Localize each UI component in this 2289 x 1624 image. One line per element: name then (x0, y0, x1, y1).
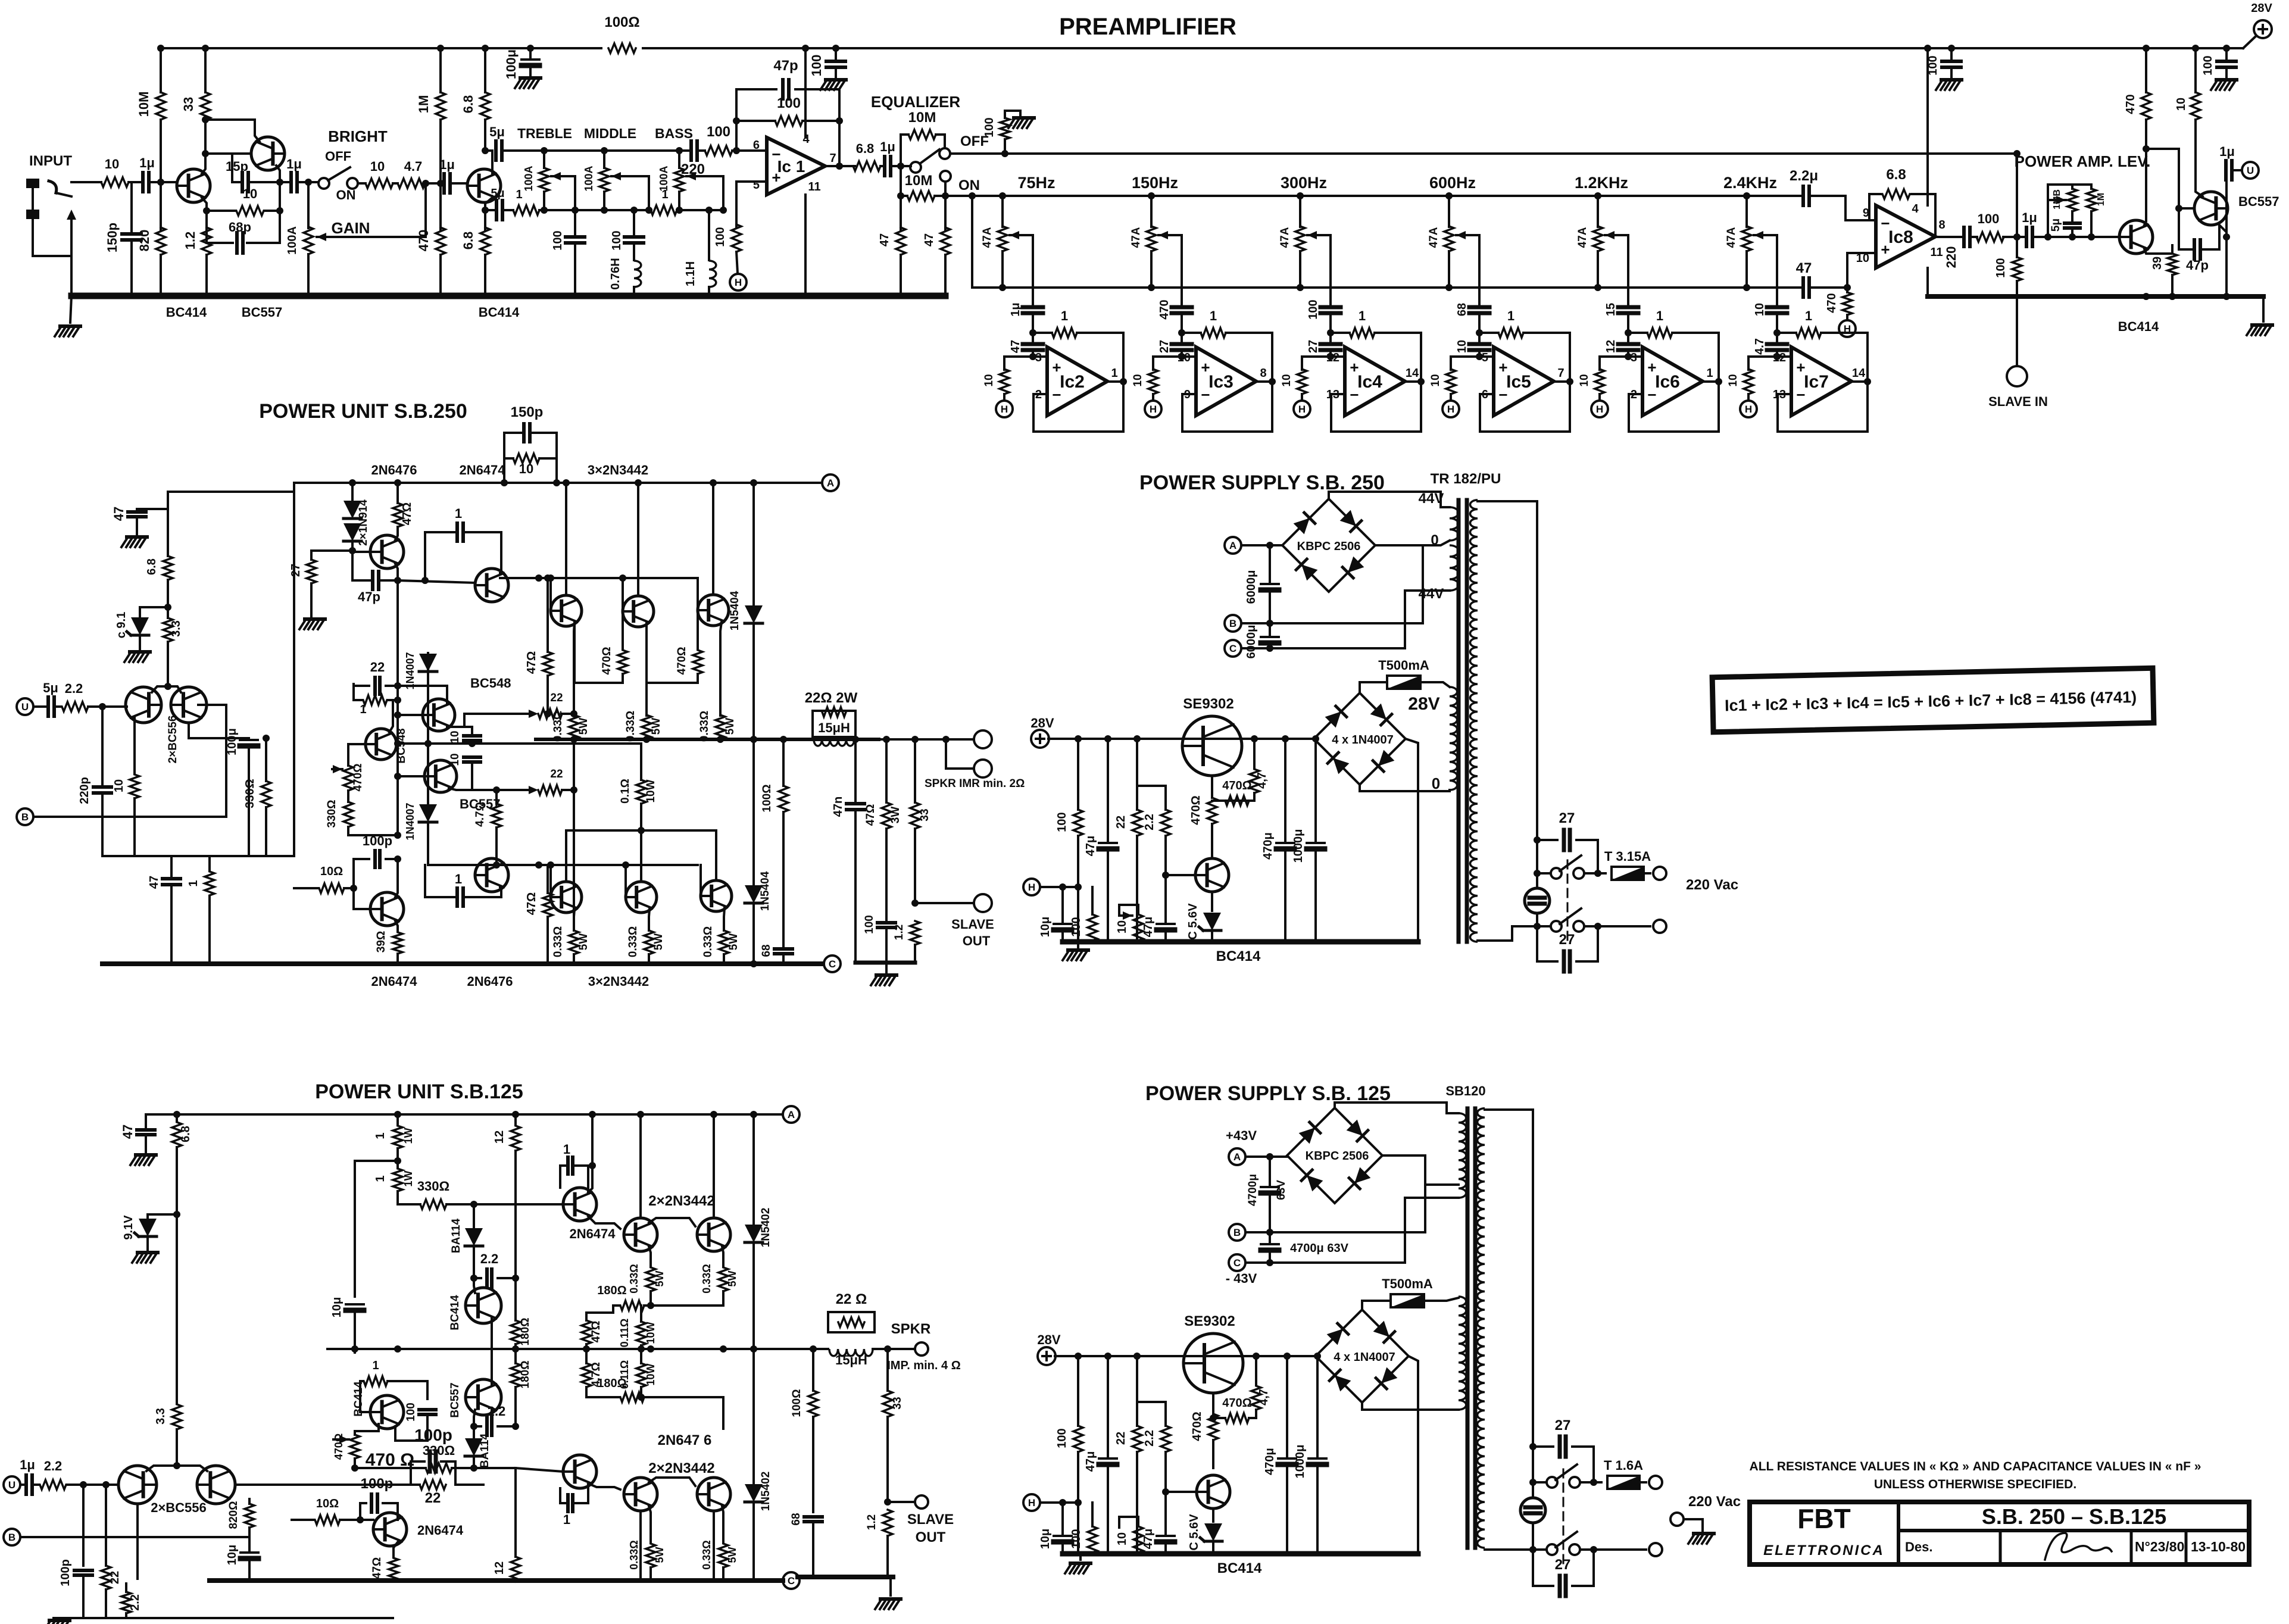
wire to base BC556a (88, 705, 127, 708)
bridge rectifier 4x1N4007 125 (1316, 1310, 1409, 1403)
wire mid to VAS (455, 1484, 483, 1486)
transistor output 3x2N3442 top a (551, 595, 582, 626)
wire spkr b (946, 739, 974, 769)
capacitor 1u to power amp lev (2026, 227, 2032, 246)
resistor 1 1W upper (396, 1114, 399, 1125)
resistor 100ohm right (782, 739, 785, 786)
wire BC557 emitter (491, 1349, 493, 1385)
svg-text:10: 10 (1456, 340, 1469, 353)
wire IC1 + input to 100-H (736, 182, 767, 227)
svg-text:47A: 47A (1428, 227, 1440, 248)
transformer secondary winding (1450, 545, 1459, 591)
switch mains bottom (1551, 921, 1562, 932)
zener C5.6V (1211, 892, 1213, 911)
svg-text:10μ: 10μ (1039, 917, 1052, 937)
resistor 1 lower middle-bass (651, 205, 677, 215)
wire cap to plus input Ic2 (1033, 350, 1047, 357)
svg-text:1μ: 1μ (2219, 144, 2235, 159)
terminal H supply 250 (1023, 879, 1040, 895)
svg-text:4: 4 (1912, 202, 1919, 216)
svg-text:22: 22 (550, 768, 563, 780)
wire Ic8 supply vertical (1926, 48, 1929, 205)
transistor BC556 a (126, 687, 161, 723)
resistor 0.33ohm 5W upper b (722, 1247, 723, 1267)
node 75Hz on feed rail (999, 192, 1006, 199)
pot 470ohm (348, 744, 366, 766)
svg-text:H: H (1844, 323, 1851, 335)
capacitor 100 zobel (877, 923, 895, 927)
resistor 47 to ground bus left (900, 196, 902, 230)
resistor 22 zig 125 (838, 1317, 864, 1327)
wire to BC414 base (151, 181, 177, 183)
svg-text:BC557: BC557 (449, 1382, 461, 1417)
svg-text:0.33Ω: 0.33Ω (552, 926, 564, 957)
pot wiper 125 (333, 1438, 349, 1441)
wire level network to base line (2071, 230, 2073, 237)
wire common emitters 125 (146, 1466, 207, 1471)
node 1.2KHz on feed rail (1594, 192, 1601, 199)
wire output Ic3 (1256, 380, 1272, 383)
svg-text:11: 11 (808, 180, 820, 193)
svg-text:47Ω: 47Ω (525, 651, 538, 674)
wire equalizer feed rail (972, 195, 1801, 197)
resistor 1 feedback Ic2 (1033, 332, 1052, 334)
svg-text:10: 10 (1281, 374, 1293, 386)
transistor predriver 2N6474 top (475, 569, 508, 602)
svg-text:TREBLE: TREBLE (517, 126, 572, 141)
line y1249 (398, 742, 641, 745)
wire output node down to bus (2225, 237, 2228, 296)
svg-text:2N6476: 2N6476 (467, 974, 513, 989)
resistor 100 series to IC1 (699, 149, 705, 152)
svg-text:10: 10 (1116, 1532, 1129, 1545)
title block divider horizontal (1898, 1529, 2249, 1532)
svg-text:2N6474: 2N6474 (417, 1523, 464, 1538)
capacitor 1u coupling to bright switch (280, 181, 289, 183)
capacitor 27 mains bottom (1537, 926, 1557, 961)
svg-text:ELETTRONICA: ELETTRONICA (1763, 1542, 1885, 1559)
bridge rectifier 4x1N4007 supply 250 (1314, 693, 1406, 785)
capacitor 10 b (464, 757, 480, 762)
bottom bus 125 (210, 1578, 783, 1583)
resistor 2.2 supply 125 (1137, 1402, 1166, 1426)
resistor 4.7 125 (1255, 1356, 1257, 1385)
wire output Ic5 (1554, 380, 1570, 383)
capacitor 220 to IC1 (691, 141, 697, 160)
diode 1N5404 top (752, 483, 755, 605)
resistor 10 after switch (358, 182, 366, 185)
terminal A power unit 250 (822, 474, 839, 491)
capacitor 47n zobel (854, 739, 857, 801)
transistor BC557 second stage pnp (251, 137, 285, 170)
diode 1N5402 lower (752, 1349, 755, 1484)
svg-text:47μ: 47μ (1084, 836, 1097, 856)
resistor 100 to H (732, 224, 741, 252)
wire to base 125 (67, 1484, 117, 1486)
transistor BC414 vbe 125 (370, 1395, 404, 1429)
resistor 10 to lower line (133, 717, 136, 773)
coil 0.76H (634, 261, 641, 287)
wire 47p to emitter line (381, 579, 398, 582)
resistor 4.7 SE9302 (1253, 739, 1256, 768)
svg-text:H: H (1596, 404, 1603, 415)
op-amp Ic2 (1047, 347, 1107, 416)
svg-text:220p: 220p (78, 777, 91, 804)
fuse T3.15A (1612, 867, 1644, 880)
capacitor 47 left with ground 125 (145, 1114, 147, 1127)
svg-text:47: 47 (923, 233, 936, 246)
svg-text:39: 39 (2151, 257, 2164, 270)
wire cap to plus input Ic5 (1479, 350, 1494, 357)
capacitor 68p parallel (207, 211, 233, 243)
ground (136, 1153, 156, 1157)
capacitor 100 under treble segment (574, 210, 576, 235)
ground bus preamp thick (71, 293, 945, 299)
wire feedback top Ic7 (1821, 333, 1868, 382)
terminal A supply 250 (1225, 537, 1241, 554)
diode BA114 upper (473, 1204, 475, 1228)
bottom bus supply 125 (1063, 1551, 1418, 1557)
wire output Ic6 (1703, 380, 1719, 383)
svg-text:150Hz: 150Hz (1132, 174, 1178, 192)
svg-text:1: 1 (1359, 308, 1366, 323)
svg-text:1: 1 (1805, 308, 1812, 323)
resistor 10 input series (71, 181, 101, 183)
capacitor 47u low 125 (1164, 1510, 1167, 1534)
svg-text:47Ω: 47Ω (525, 892, 538, 915)
svg-text:U: U (8, 1479, 15, 1491)
node summing rail (1148, 284, 1155, 291)
resistor 1 lower (208, 856, 211, 870)
resistor 33 right 125 (886, 1349, 889, 1391)
wire cap to plus input Ic4 (1331, 350, 1345, 357)
svg-text:33: 33 (919, 808, 931, 821)
wire base driver top (352, 551, 370, 552)
wire 6.8 down to zener node (148, 1147, 177, 1214)
coil 15uH (814, 739, 854, 746)
svg-text:5μ: 5μ (2050, 218, 2062, 232)
resistor 47 to ground bus right (944, 196, 947, 230)
svg-text:4,7: 4,7 (1256, 772, 1269, 789)
svg-text:UNLESS OTHERWISE SPECIFIED.: UNLESS OTHERWISE SPECIFIED. (1874, 1478, 2076, 1491)
svg-text:2.2μ: 2.2μ (1790, 168, 1818, 184)
capacitor 1000u supply 125 (1316, 1356, 1319, 1456)
svg-text:1.1H: 1.1H (684, 261, 697, 286)
resistor 6.8 bias (167, 509, 169, 556)
svg-text:820Ω: 820Ω (227, 1501, 240, 1529)
svg-text:1: 1 (563, 1142, 570, 1157)
capacitor 47p base-emitter (352, 551, 370, 580)
svg-text:22: 22 (1114, 1432, 1128, 1445)
wire collectors up (639, 1114, 642, 1218)
resistor 1.2 emitter (202, 227, 211, 255)
wire 15p node (250, 181, 280, 183)
capacitor 1 miller bottom (425, 865, 455, 897)
node 2.4KHz on feed rail (1743, 192, 1750, 199)
svg-text:15p: 15p (226, 159, 248, 174)
ground (305, 617, 325, 621)
capacitor 10u 125 (1061, 1503, 1064, 1534)
ground (127, 535, 147, 539)
capacitor 1u out (880, 165, 883, 167)
ground (2216, 78, 2237, 82)
svg-text:27: 27 (1307, 340, 1320, 353)
svg-text:100: 100 (1994, 258, 2007, 277)
wire bridge right to 0 tap (1375, 545, 1423, 623)
svg-text:B: B (8, 1532, 15, 1543)
capacitor 47u supply 125 (1107, 1356, 1109, 1456)
svg-text:470μ: 470μ (1263, 1448, 1276, 1475)
resistor 22 supply 125 (1136, 1356, 1138, 1426)
svg-text:28V: 28V (1408, 694, 1439, 714)
svg-text:C 5.6V: C 5.6V (1188, 1514, 1201, 1551)
pot wiper 470 (332, 768, 342, 770)
svg-text:100: 100 (1070, 917, 1083, 936)
svg-text:100Ω: 100Ω (791, 1389, 803, 1417)
svg-text:33: 33 (891, 1397, 904, 1409)
switch mains bottom 125 (1547, 1544, 1557, 1555)
wire output bases drops top (549, 578, 552, 611)
svg-text:22: 22 (425, 1490, 441, 1506)
capacitor 10u 125 (248, 1537, 251, 1550)
svg-text:1μ: 1μ (286, 157, 302, 171)
svg-text:10: 10 (519, 461, 533, 476)
resistor 6.8 left 125 (176, 1114, 178, 1122)
svg-text:100: 100 (1926, 55, 1940, 75)
svg-text:6: 6 (753, 139, 760, 152)
switch mains top (1536, 840, 1538, 873)
wire signal to mid (235, 1484, 411, 1486)
pot wiper arrow 600Hz (1456, 234, 1479, 236)
capacitor 2.2 upper (474, 1277, 481, 1279)
svg-text:GAIN: GAIN (332, 219, 370, 237)
svg-text:0.33Ω: 0.33Ω (701, 1540, 713, 1569)
svg-text:10: 10 (113, 779, 126, 792)
resistor 1.2 slave (910, 921, 920, 945)
wire output node up to 1u (2225, 170, 2228, 237)
svg-text:180Ω: 180Ω (597, 1284, 626, 1297)
wire BC414 emitter to 39 (2144, 249, 2172, 254)
resistor 33 right (914, 739, 916, 802)
svg-text:27: 27 (1559, 810, 1575, 826)
transistor 2N6476 driver mid lower (563, 1455, 597, 1488)
terminal U input power unit 250 (17, 698, 33, 715)
wire BC557 base (474, 1410, 475, 1426)
svg-text:- 43V: - 43V (1226, 1271, 1257, 1286)
resistor 47ohm emitter to bias line (547, 578, 549, 652)
bottom bus power unit 250 (102, 961, 822, 966)
pot 100A middle (601, 147, 608, 154)
resistor 10 emitter supply (2191, 92, 2200, 120)
svg-text:470Ω: 470Ω (1191, 1411, 1204, 1441)
svg-text:0.33Ω: 0.33Ω (624, 711, 637, 742)
terminal mains neutral 125 (1649, 1543, 1662, 1556)
resistor 1M bias (439, 48, 442, 92)
svg-text:330Ω: 330Ω (417, 1179, 449, 1194)
switch mains top 125 (1532, 1447, 1534, 1482)
resistor 470 to H Ic8 (1846, 288, 1848, 292)
wire vertical B (396, 580, 399, 835)
svg-text:C: C (1229, 643, 1236, 654)
transformer core (1457, 500, 1461, 942)
arrow 22 top (529, 710, 538, 718)
resistor 180ohm right a (514, 1278, 517, 1320)
terminal H Ic5 (1450, 394, 1452, 401)
switch link dashed (1567, 860, 1569, 941)
wire BC557 collector to output node (2219, 225, 2226, 237)
svg-text:0.33Ω: 0.33Ω (628, 1540, 640, 1569)
svg-text:1000μ: 1000μ (1294, 1445, 1307, 1479)
svg-text:100: 100 (777, 95, 801, 111)
svg-text:330Ω: 330Ω (423, 1443, 455, 1458)
zener 9.1V 125 (146, 1214, 149, 1218)
resistor 0.11ohm 10W upper (636, 1322, 646, 1345)
wire base driver bottom (354, 888, 370, 909)
svg-text:6.8: 6.8 (461, 95, 476, 114)
svg-text:47Ω: 47Ω (371, 1557, 383, 1579)
svg-text:SPKR: SPKR (891, 1321, 931, 1337)
capacitor 2.2u to Ic8 (1803, 186, 1809, 205)
wire lower line to bass pot (677, 209, 723, 211)
svg-text:4 x 1N4007: 4 x 1N4007 (1332, 733, 1393, 747)
resistor 10M lower (901, 166, 907, 196)
node summing rail (1445, 284, 1453, 291)
svg-text:100: 100 (551, 230, 564, 250)
wire BC557 emitter up to 10 (2196, 120, 2203, 196)
wire node up to level pot bracket (2048, 185, 2072, 237)
svg-text:100: 100 (1070, 1529, 1083, 1548)
svg-text:2×2N3442: 2×2N3442 (648, 1193, 714, 1209)
svg-text:10W: 10W (645, 1322, 657, 1344)
svg-text:A: A (788, 1109, 795, 1120)
node base BC414 (157, 179, 164, 186)
resistor 6.8 IC1 out (853, 161, 880, 171)
svg-text:150p: 150p (511, 404, 544, 420)
svg-text:POWER UNIT S.B.250: POWER UNIT S.B.250 (259, 400, 467, 423)
svg-text:T 3.15A: T 3.15A (1604, 849, 1651, 864)
svg-text:470: 470 (1825, 293, 1838, 313)
capacitor 100u rail decoupling with ground near input stage (529, 48, 532, 58)
svg-text:1: 1 (1706, 367, 1713, 380)
svg-text:Ic5: Ic5 (1506, 372, 1531, 392)
zener C5.6V 125 (1212, 1509, 1214, 1522)
capacitor 1 lower driver (560, 1488, 566, 1503)
svg-text:1μ: 1μ (1009, 302, 1022, 316)
switch equalizer ON contact (940, 171, 951, 182)
capacitor 4700u lower (1269, 1232, 1271, 1242)
wire BC556b collector rail drop (293, 483, 295, 856)
resistor 100 supply b (1091, 887, 1094, 914)
capacitor 27 input Ic4 (1320, 344, 1341, 350)
svg-text:1N5404: 1N5404 (729, 591, 741, 630)
capacitor 47 lower (170, 856, 173, 876)
capacitor 1 miller top (425, 532, 455, 580)
svg-text:100: 100 (405, 1403, 417, 1422)
svg-text:47: 47 (120, 1125, 135, 1139)
feedback box Ic5 (1480, 382, 1570, 432)
svg-text:C: C (829, 958, 836, 970)
svg-text:+43V: +43V (1226, 1128, 1257, 1143)
wire between caps Ic2 (1032, 313, 1034, 344)
wire rail branch to bias chain (168, 483, 294, 509)
svg-text:IMP. min. 4 Ω: IMP. min. 4 Ω (887, 1359, 960, 1372)
svg-text:100p: 100p (361, 1476, 394, 1492)
svg-text:6.8: 6.8 (179, 1126, 192, 1142)
svg-text:1.2: 1.2 (183, 232, 198, 250)
svg-text:BC414: BC414 (166, 305, 207, 320)
transistor output top b (623, 596, 654, 627)
terminal +28V 125 (1038, 1347, 1055, 1365)
transistor BC548 vbe (366, 729, 396, 760)
wire equalizer summing rail (972, 286, 1800, 289)
resistor 0.33ohm 5W bottom c (719, 930, 729, 954)
wire cap to plus input Ic6 (1628, 350, 1642, 357)
signature scribble (2045, 1533, 2112, 1560)
ground (826, 78, 846, 82)
wire BC414 collector up (2144, 120, 2146, 225)
bus bottom right 125 (798, 1575, 893, 1579)
resistor 22 bias top (538, 709, 562, 719)
svg-text:POWER UNIT S.B.125: POWER UNIT S.B.125 (315, 1080, 523, 1103)
wire positive rail power unit 125 (146, 1113, 783, 1116)
wire between caps Ic4 (1329, 313, 1332, 344)
terminal SPKR 125 (915, 1342, 928, 1356)
wire collector pair lower join (713, 1511, 715, 1581)
terminal H Ic7 (1747, 394, 1750, 401)
transformer core (1466, 1108, 1470, 1548)
svg-text:4700μ: 4700μ (1247, 1174, 1259, 1206)
svg-text:A: A (1234, 1151, 1241, 1163)
resistor 10 to H Ic6 (1600, 357, 1628, 370)
wire emitter a down (574, 623, 574, 716)
svg-text:SLAVE IN: SLAVE IN (1988, 394, 2048, 409)
svg-text:BC548: BC548 (395, 728, 408, 763)
svg-text:10W: 10W (645, 1363, 657, 1385)
svg-text:1: 1 (187, 880, 200, 886)
svg-text:180Ω: 180Ω (597, 1377, 626, 1390)
svg-text:1: 1 (1656, 308, 1663, 323)
fuse T500mA supply 250 (1387, 676, 1420, 689)
wire collector coupling to BC557 base (2146, 149, 2194, 208)
transistor output bottom b (626, 882, 657, 913)
switch bright contact left (318, 178, 329, 189)
wire 3.3 to input pair emitters (167, 642, 169, 685)
node dots rail 125 supply (1075, 1353, 1082, 1360)
resistor 39 emitter to ground bus (2171, 245, 2174, 254)
capacitor 6000u A-B (1269, 545, 1271, 582)
capacitor 2.2 lower (474, 1425, 481, 1428)
terminal earth mains 125 (1670, 1513, 1684, 1526)
transistor BC414 first stage (177, 169, 210, 202)
transistor BC557 level pnp (2194, 192, 2228, 225)
resistor 10 loop (504, 457, 513, 460)
capacitor 470u supply (1284, 739, 1286, 841)
resistor 100ohm in supply rail (602, 42, 642, 55)
svg-text:T 1.6A: T 1.6A (1604, 1458, 1643, 1473)
resistor 820 base to ground (160, 182, 162, 230)
svg-text:MIDDLE: MIDDLE (584, 126, 636, 141)
svg-text:3×2N3442: 3×2N3442 (588, 463, 648, 477)
svg-text:47A: 47A (981, 227, 994, 248)
resistor 39ohm driver bottom emitter (395, 921, 398, 931)
terminal U input 125 (4, 1476, 20, 1493)
svg-text:68: 68 (760, 944, 773, 957)
switch link dashed 125 (1563, 1469, 1564, 1566)
transformer primary winding (1470, 500, 1478, 942)
svg-text:6.8: 6.8 (145, 558, 158, 575)
resistor 1 1W lower (393, 1169, 402, 1191)
diode 1N5404 bottom (752, 739, 755, 885)
